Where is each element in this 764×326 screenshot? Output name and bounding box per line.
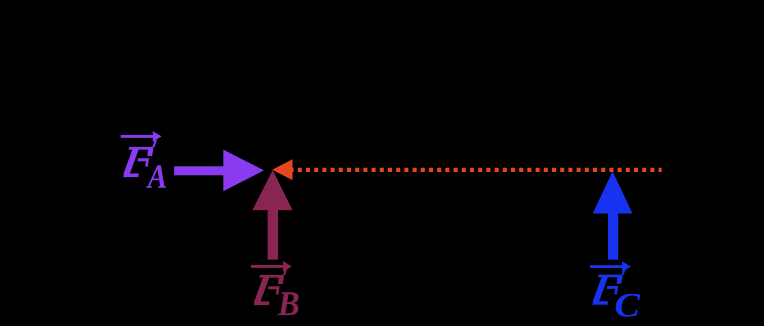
label F_A : subscript A: [146, 165, 166, 187]
label F_C : vector bar: [590, 261, 631, 272]
label F_C : letter F: [592, 268, 626, 305]
force arrow F_C (blue, pointing up): [593, 171, 633, 259]
label F_B : subscript B: [278, 292, 299, 315]
label F_C : subscript C: [616, 294, 641, 317]
force arrow F_A (purple, pointing right): [174, 150, 264, 192]
label F_B : vector bar: [251, 261, 292, 272]
label F_A : letter F: [123, 140, 157, 177]
arrowhead pointing left at junction (orange): [272, 159, 292, 180]
force arrow F_B (maroon, pointing up): [252, 170, 292, 260]
label F_A : vector bar: [121, 131, 162, 142]
label F_B : letter F: [254, 268, 288, 305]
dashed construction line (orange, dotted): [290, 168, 662, 172]
